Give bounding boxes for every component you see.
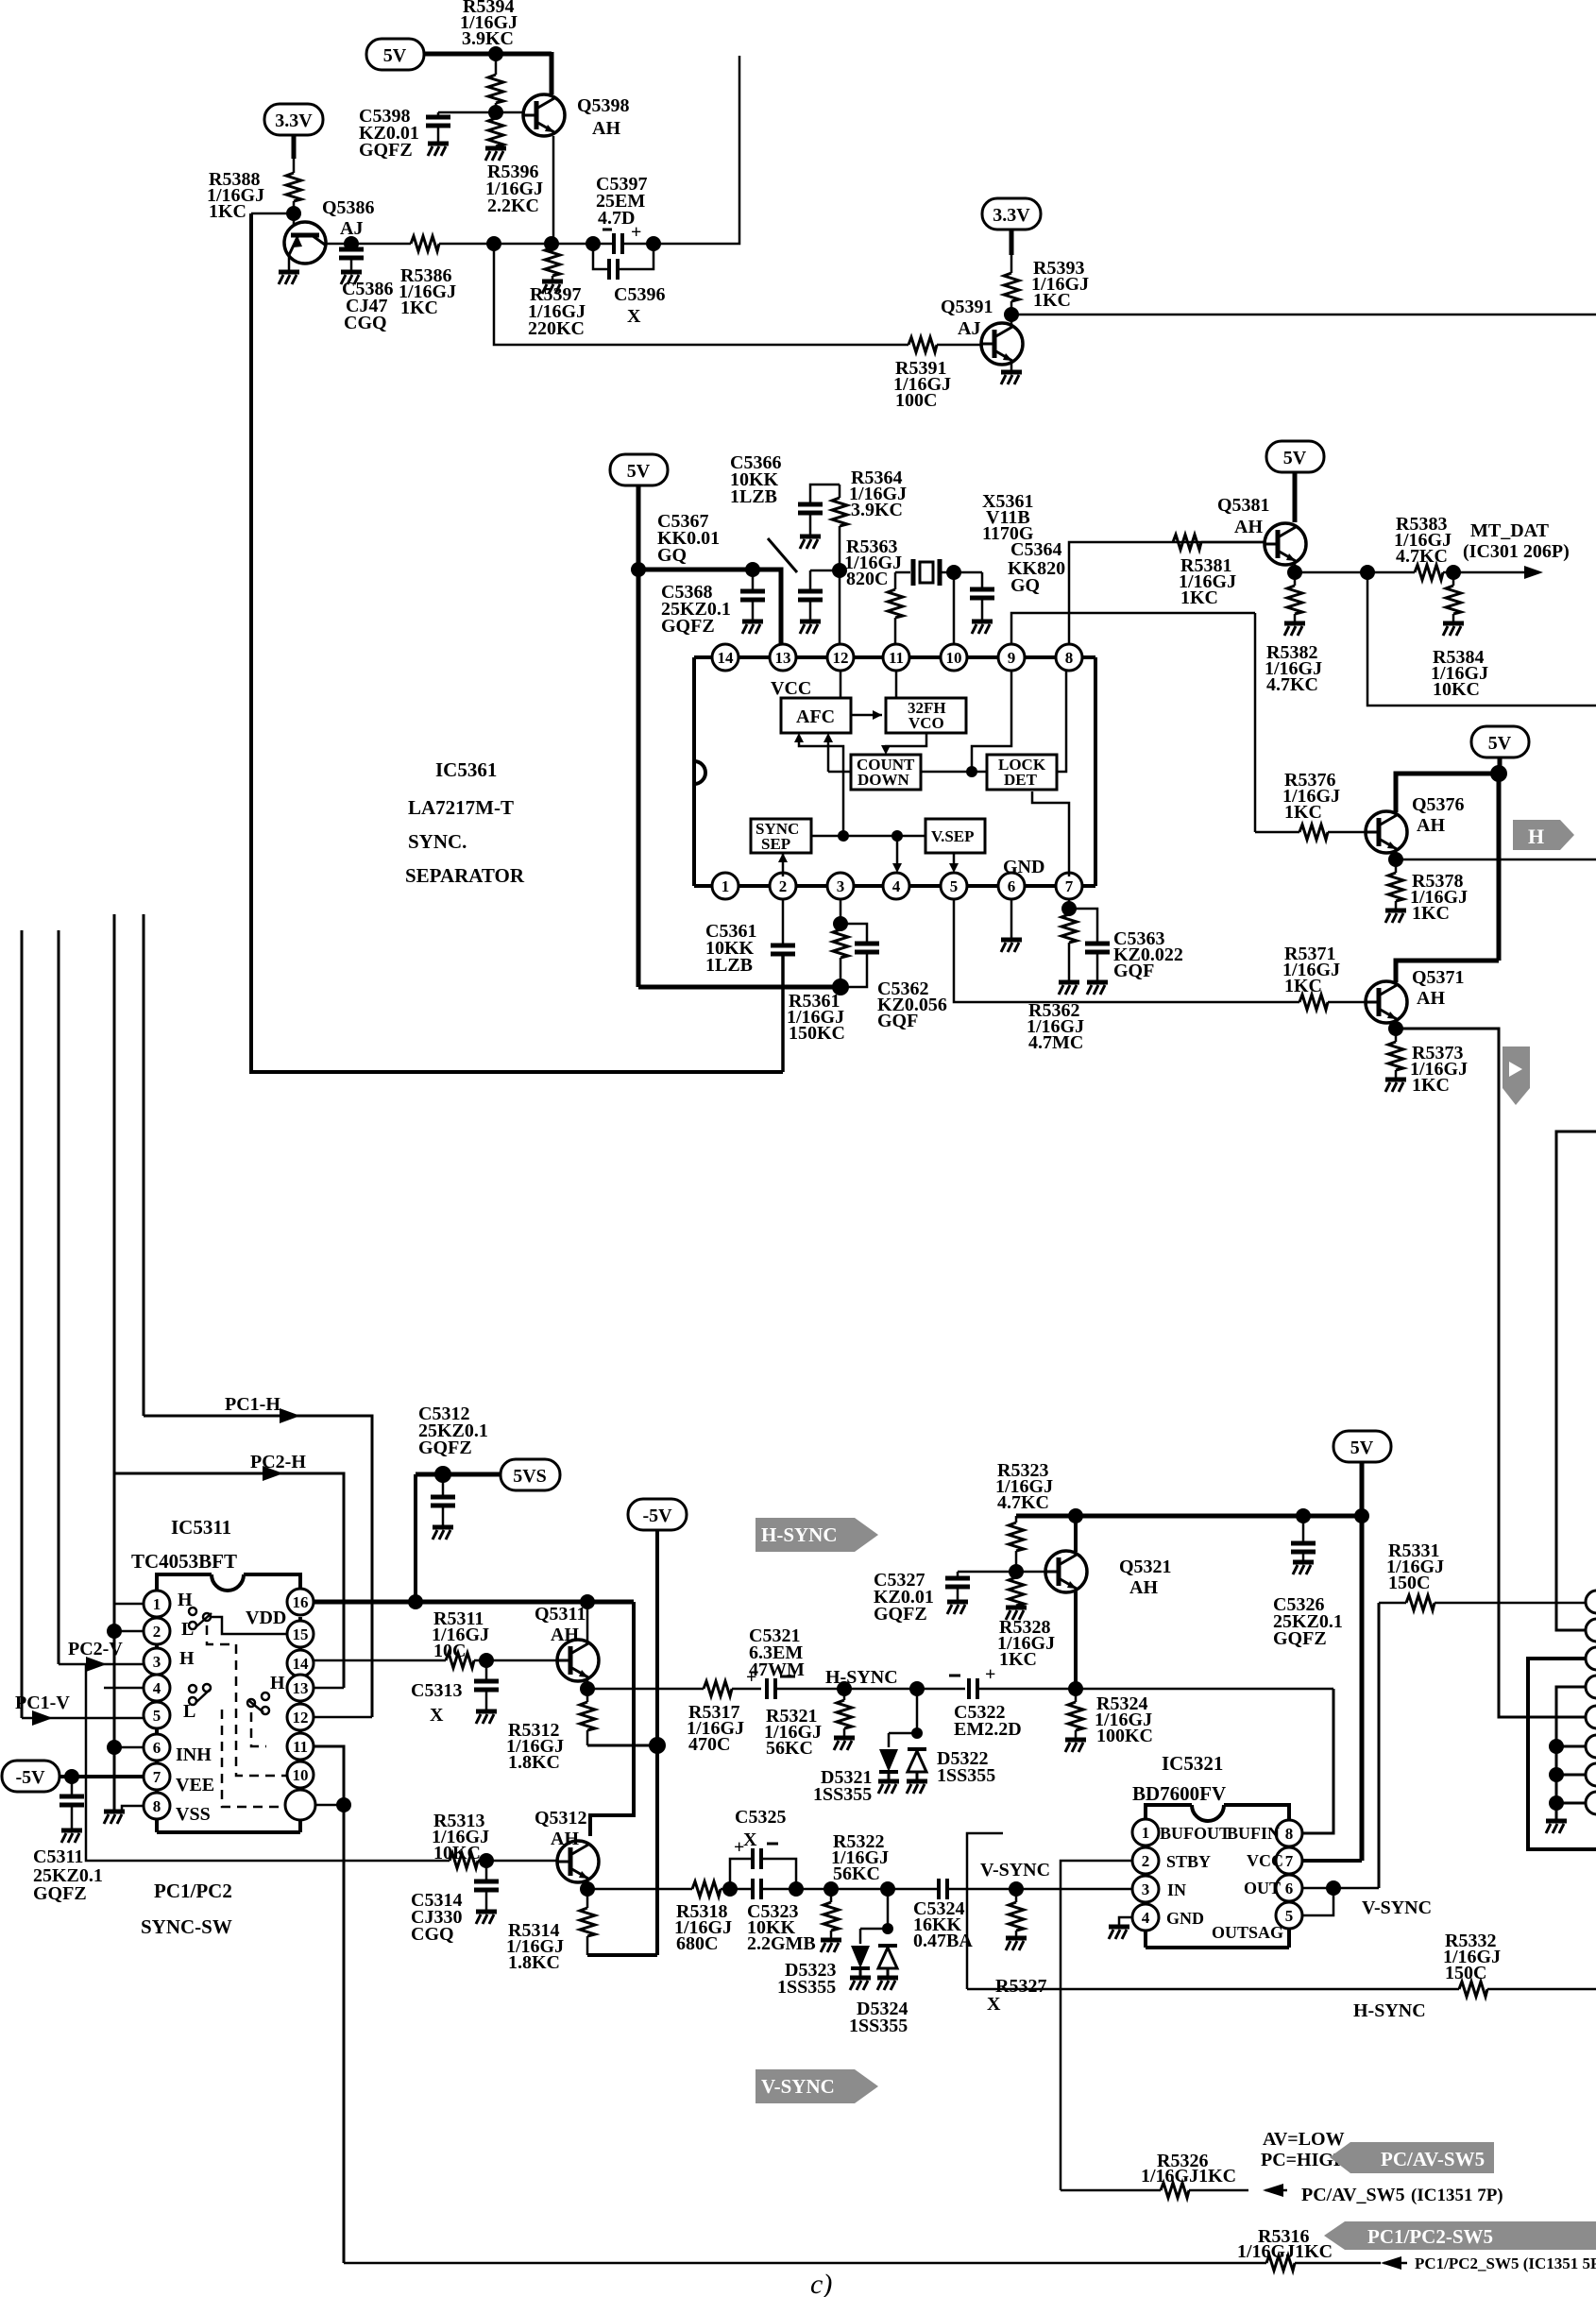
svg-text:2.2GMB: 2.2GMB xyxy=(747,1933,816,1954)
svg-text:2.2KC: 2.2KC xyxy=(487,196,539,216)
svg-text:8: 8 xyxy=(1285,1825,1294,1843)
capacitor below slash xyxy=(810,570,840,572)
wire input line 4 xyxy=(143,914,145,1416)
diode D5322 xyxy=(908,1749,926,1779)
resistor R5322 xyxy=(830,1889,833,1902)
node C5323 right xyxy=(789,1881,804,1897)
resistor R5396 xyxy=(495,112,498,118)
transistor Q5321 xyxy=(1045,1551,1087,1592)
wire 5V return bottom xyxy=(638,985,840,990)
conn pin A2 xyxy=(1586,1619,1596,1642)
pin 7 xyxy=(144,1763,170,1790)
flag PC1/PC2-SW5 xyxy=(1324,2221,1596,2250)
resistor R5323 xyxy=(1015,1516,1018,1523)
jumper C5367 slash xyxy=(768,538,797,572)
block V.SEP xyxy=(925,819,985,853)
crystal X5361 xyxy=(895,571,910,574)
resistor R5321 xyxy=(843,1689,846,1700)
svg-text:1: 1 xyxy=(722,877,730,895)
svg-text:3: 3 xyxy=(1142,1880,1150,1898)
wire PC/AV row xyxy=(1061,2189,1161,2192)
svg-text:Q5321: Q5321 xyxy=(1119,1557,1172,1577)
svg-text:PC1/PC2: PC1/PC2 xyxy=(154,1880,232,1902)
svg-text:1SS355: 1SS355 xyxy=(937,1765,995,1786)
svg-text:CGQ: CGQ xyxy=(344,313,387,333)
pin 4 xyxy=(144,1675,170,1701)
wire pin2 to C5361 xyxy=(782,899,785,945)
wire BUFIN xyxy=(1302,1689,1333,1833)
node pin3 xyxy=(840,899,842,924)
wire Q5311 collector xyxy=(586,1602,589,1641)
dashed control lines xyxy=(207,1625,286,1776)
wire VDD row xyxy=(314,1600,634,1605)
wire pin13 right xyxy=(314,1687,344,1690)
-5V supply mid xyxy=(628,1499,687,1530)
svg-text:AV=LOW: AV=LOW xyxy=(1263,2129,1345,2150)
svg-text:1SS355: 1SS355 xyxy=(849,2016,908,2036)
resistor R5371 xyxy=(1299,995,1328,1010)
svg-text:56KC: 56KC xyxy=(833,1863,880,1884)
svg-text:GND: GND xyxy=(1003,857,1044,877)
pin 4 xyxy=(883,873,909,899)
node R5327 xyxy=(1009,1881,1024,1897)
pin 7c xyxy=(1276,1847,1302,1874)
wire pin12 to AFC xyxy=(840,671,842,698)
block AFC xyxy=(781,698,851,733)
wire input line 3 xyxy=(113,914,116,1810)
diode D5321 xyxy=(888,1733,891,1747)
svg-text:X: X xyxy=(430,1705,444,1726)
svg-text:VEE: VEE xyxy=(176,1775,214,1795)
wire diode drop xyxy=(916,1689,919,1733)
svg-text:V-SYNC: V-SYNC xyxy=(980,1860,1050,1880)
svg-text:CGQ: CGQ xyxy=(411,1924,454,1945)
resistor R5373 xyxy=(1395,1029,1398,1042)
node Q5371 emitter xyxy=(1395,1019,1398,1029)
block SYNC SEP xyxy=(751,819,811,853)
node conn6 xyxy=(1549,1739,1564,1754)
wire PC2-H xyxy=(114,1473,344,1688)
svg-text:GQFZ: GQFZ xyxy=(418,1438,472,1458)
5V supply Q5321 xyxy=(1333,1431,1391,1462)
svg-text:H: H xyxy=(179,1648,195,1669)
svg-text:IC5321: IC5321 xyxy=(1162,1752,1223,1775)
svg-text:3: 3 xyxy=(837,877,845,895)
svg-text:C5364: C5364 xyxy=(1010,539,1061,560)
svg-text:4.7D: 4.7D xyxy=(598,208,635,229)
svg-text:+: + xyxy=(985,1664,995,1685)
svg-text:Q5398: Q5398 xyxy=(577,95,630,116)
svg-text:V-SYNC: V-SYNC xyxy=(1362,1897,1432,1918)
5V supply Q5376 xyxy=(1471,726,1529,757)
wire R5312 to rail xyxy=(587,1744,657,1747)
wire Q5398 emitter xyxy=(552,136,555,244)
svg-text:Q5381: Q5381 xyxy=(1217,495,1270,516)
wire H out xyxy=(1396,859,1596,861)
resistor R5382 xyxy=(1294,572,1297,586)
wire conn2 xyxy=(1556,1131,1596,1630)
svg-text:H: H xyxy=(1528,825,1544,848)
capacitor C5398 xyxy=(437,112,440,117)
svg-text:1KC: 1KC xyxy=(1284,802,1322,823)
wire Q5321 emitter xyxy=(1074,1590,1078,1689)
svg-text:AH: AH xyxy=(1234,517,1263,537)
svg-text:GQFZ: GQFZ xyxy=(33,1883,87,1904)
node 5V rail join xyxy=(1354,1508,1369,1523)
node C5314 xyxy=(479,1853,494,1868)
wire pin12 right xyxy=(314,1716,372,1719)
svg-text:3: 3 xyxy=(153,1653,161,1671)
pin 12 xyxy=(827,644,854,671)
pin 6c xyxy=(1276,1875,1302,1901)
svg-text:4: 4 xyxy=(1142,1909,1150,1927)
svg-text:LA7217M-T: LA7217M-T xyxy=(408,796,514,819)
pin 2 xyxy=(144,1618,170,1644)
svg-text:C5311: C5311 xyxy=(33,1846,83,1867)
ground Q5386 emitter xyxy=(288,253,291,270)
capacitor C5322 electrolytic xyxy=(949,1675,960,1677)
svg-text:OUTSAG: OUTSAG xyxy=(1212,1923,1283,1942)
svg-text:GQFZ: GQFZ xyxy=(874,1604,927,1625)
svg-text:1: 1 xyxy=(1142,1824,1150,1842)
capacitor C5396 loop xyxy=(593,244,609,269)
capacitor C5327 xyxy=(957,1572,959,1578)
node C5326 xyxy=(1296,1508,1311,1523)
pin 3 xyxy=(144,1648,170,1675)
wire pin7 internal xyxy=(1032,791,1069,876)
svg-text:6: 6 xyxy=(1008,877,1016,895)
svg-text:GND: GND xyxy=(1166,1909,1204,1928)
node pin12 top xyxy=(832,563,847,578)
wire COUNT-LOCK xyxy=(921,771,987,774)
svg-text:AH: AH xyxy=(1417,988,1445,1009)
node R5321 xyxy=(837,1681,852,1696)
wire Q5371 collector xyxy=(1396,961,1499,982)
pin 8 xyxy=(144,1793,170,1819)
wire 5V rail IC5321 xyxy=(1360,1462,1365,1861)
resistor R5394 xyxy=(495,54,498,75)
svg-text:AH: AH xyxy=(1129,1577,1158,1598)
pin 14b xyxy=(287,1650,314,1676)
wire to AFC arrows xyxy=(799,737,843,836)
svg-text:c): c) xyxy=(810,2269,832,2297)
block COUNT DOWN xyxy=(851,755,921,790)
node 5V rail xyxy=(1490,765,1507,782)
svg-text:SYNC.: SYNC. xyxy=(408,830,467,853)
resistor R5393 xyxy=(1010,230,1014,255)
svg-text:3.3V: 3.3V xyxy=(275,111,313,131)
wire A out xyxy=(1396,1029,1586,1717)
node Q5391 collector xyxy=(1004,307,1019,322)
wire Q5321 collector xyxy=(1074,1516,1078,1552)
capacitor C5311 xyxy=(71,1777,74,1796)
wire 5V to Q5381 xyxy=(1293,472,1298,522)
transistor Q5311 xyxy=(557,1640,599,1681)
wire video loop left xyxy=(251,213,783,1072)
IC5321 body xyxy=(1146,1805,1289,1948)
svg-text:Q5312: Q5312 xyxy=(535,1808,587,1829)
wire pin1 left xyxy=(114,1603,144,1606)
svg-text:SEP: SEP xyxy=(761,835,790,853)
conn pin A1 xyxy=(1586,1591,1596,1613)
capacitor C5361 xyxy=(771,945,795,954)
svg-text:680C: 680C xyxy=(676,1933,718,1954)
wire pin11 to VCO xyxy=(895,671,898,698)
wire sw1 common to pin15 xyxy=(211,1617,287,1634)
svg-text:BUFIN: BUFIN xyxy=(1227,1824,1280,1843)
node sync a xyxy=(838,830,849,842)
wire pin11 right xyxy=(314,1746,344,2263)
transistor Q5386 xyxy=(284,222,326,264)
pin 6 xyxy=(998,873,1025,899)
svg-text:VSS: VSS xyxy=(176,1804,211,1825)
wire VCC pin xyxy=(1302,1859,1362,1863)
svg-text:1.8KC: 1.8KC xyxy=(508,1952,560,1973)
svg-text:Q5371: Q5371 xyxy=(1412,967,1465,988)
node C5312 drop xyxy=(408,1594,423,1609)
node C5368 xyxy=(745,562,760,577)
svg-text:X: X xyxy=(987,1994,1001,2015)
resistor R5331 xyxy=(1379,1602,1406,1605)
pin 13b xyxy=(287,1675,314,1701)
svg-text:1KC: 1KC xyxy=(1412,903,1450,924)
pin 9 xyxy=(998,644,1025,671)
ground conn xyxy=(1546,1821,1567,1833)
capacitor C5323 xyxy=(751,1879,755,1899)
svg-text:8: 8 xyxy=(153,1797,161,1815)
wire -5V to VEE xyxy=(59,1775,144,1778)
conn pin A4 xyxy=(1586,1676,1596,1698)
svg-text:AFC: AFC xyxy=(796,706,835,727)
3.3V supply left xyxy=(264,104,323,135)
wire pin9 drop xyxy=(1254,613,1257,832)
svg-text:7: 7 xyxy=(1285,1852,1294,1870)
3.3V supply right xyxy=(982,198,1041,230)
svg-text:C5325: C5325 xyxy=(735,1807,786,1828)
node C5313 xyxy=(479,1653,494,1668)
transistor Q5371 xyxy=(1366,981,1407,1023)
wire emitter row xyxy=(1295,571,1415,574)
svg-text:1LZB: 1LZB xyxy=(705,955,753,976)
svg-text:AJ: AJ xyxy=(340,218,363,239)
wire long output y333 xyxy=(1011,314,1596,316)
wire collector stub xyxy=(1010,315,1013,327)
svg-text:5: 5 xyxy=(153,1707,161,1725)
svg-text:H-SYNC: H-SYNC xyxy=(761,1523,838,1546)
pin 10b xyxy=(287,1761,314,1788)
svg-text:16: 16 xyxy=(293,1593,309,1611)
pin 4c xyxy=(1132,1904,1159,1931)
svg-text:220KC: 220KC xyxy=(528,318,585,339)
5V supply top xyxy=(366,39,424,70)
svg-text:1SS355: 1SS355 xyxy=(813,1784,872,1805)
wire OUT xyxy=(1302,1887,1379,1890)
svg-text:14: 14 xyxy=(718,649,735,667)
svg-text:AH: AH xyxy=(1417,815,1445,836)
wire V-SYNC row xyxy=(587,1888,692,1891)
svg-text:4.7KC: 4.7KC xyxy=(997,1492,1049,1513)
capacitor C5324 xyxy=(937,1879,941,1899)
node C5386 xyxy=(344,236,359,251)
pin 11b xyxy=(287,1733,314,1760)
wire Q5321 supply row xyxy=(1016,1514,1362,1519)
svg-text:5: 5 xyxy=(950,877,959,895)
wire MT_DAT arrow xyxy=(1453,571,1528,574)
conn pin A6 xyxy=(1586,1735,1596,1758)
IC5311 body xyxy=(157,1574,300,1832)
capacitor C5326 xyxy=(1302,1516,1305,1543)
svg-text:BD7600FV: BD7600FV xyxy=(1132,1782,1226,1805)
pin 8 xyxy=(1056,644,1082,671)
svg-text:VCC: VCC xyxy=(771,678,811,699)
svg-text:6: 6 xyxy=(1285,1880,1294,1897)
resistor R5384 xyxy=(1452,572,1455,586)
node Q5398 emitter join xyxy=(544,236,559,251)
wire OUTSAG to OUT xyxy=(1302,1888,1333,1915)
svg-text:5VS: 5VS xyxy=(513,1466,547,1487)
svg-text:1KC: 1KC xyxy=(1412,1075,1450,1096)
wire Q5398 base xyxy=(438,111,524,114)
resistor R5324 xyxy=(1075,1689,1078,1702)
svg-text:12: 12 xyxy=(833,649,849,667)
svg-text:10C: 10C xyxy=(433,1641,466,1661)
svg-text:BUFOUT: BUFOUT xyxy=(1160,1824,1231,1843)
svg-text:GQF: GQF xyxy=(1113,961,1154,981)
node Q5312 emitter xyxy=(586,1879,589,1889)
svg-text:Q5386: Q5386 xyxy=(322,197,375,218)
svg-text:AJ: AJ xyxy=(958,318,980,339)
resistor R5383 xyxy=(1415,565,1443,580)
svg-text:820C: 820C xyxy=(846,569,888,589)
pin 13 xyxy=(770,644,796,671)
wire pin12 xyxy=(839,570,841,646)
resistor R5317 xyxy=(704,1681,732,1696)
wire branch to right edge xyxy=(1367,572,1596,706)
svg-text:5V: 5V xyxy=(383,45,407,66)
resistor R5391 xyxy=(908,337,937,352)
pin 2c xyxy=(1132,1847,1159,1874)
wire VSEP pin5 arrow xyxy=(953,853,956,869)
wire GND pin4 xyxy=(1119,1917,1132,1925)
wire base row xyxy=(958,1571,1045,1574)
transistor Q5391 xyxy=(981,323,1023,365)
capacitor C5386 xyxy=(350,244,353,249)
conn pin A5 xyxy=(1586,1706,1596,1728)
svg-text:VDD: VDD xyxy=(246,1608,286,1628)
svg-text:1/16GJ1KC: 1/16GJ1KC xyxy=(1141,2166,1236,2186)
svg-text:PC/AV-SW5: PC/AV-SW5 xyxy=(1381,2148,1485,2170)
wire R5314 to rail xyxy=(587,1953,657,1957)
svg-text:150KC: 150KC xyxy=(789,1023,845,1044)
svg-text:7: 7 xyxy=(1065,877,1074,895)
pin 10 xyxy=(941,644,967,671)
node pin6 INH xyxy=(107,1740,122,1755)
resistor R5364 xyxy=(839,485,841,498)
svg-text:3.9KC: 3.9KC xyxy=(851,500,903,520)
wire STBY xyxy=(1061,1861,1132,2190)
svg-text:2: 2 xyxy=(153,1623,161,1641)
wire 5V rail top xyxy=(424,52,552,57)
transistor Q5376 xyxy=(1366,811,1407,853)
pin 6 xyxy=(144,1734,170,1761)
svg-text:100KC: 100KC xyxy=(1096,1726,1153,1746)
svg-text:AH: AH xyxy=(551,1625,579,1645)
diode D5323 xyxy=(859,1929,862,1944)
svg-text:IC5361: IC5361 xyxy=(435,758,497,781)
pin 3c xyxy=(1132,1876,1159,1902)
svg-text:SYNC-SW: SYNC-SW xyxy=(141,1915,232,1938)
svg-text:5V: 5V xyxy=(1488,733,1512,754)
block 32FH VCO xyxy=(886,698,966,733)
wire R5391 feed xyxy=(494,244,908,345)
wire PC1-V arrow xyxy=(22,1717,144,1720)
wire conn3 xyxy=(1528,1659,1596,1849)
svg-text:4: 4 xyxy=(153,1679,161,1697)
svg-text:(IC301 206P): (IC301 206P) xyxy=(1463,541,1570,562)
wire LOCK to pin8 xyxy=(1057,671,1066,772)
svg-text:3.3V: 3.3V xyxy=(993,205,1030,226)
node pin2 xyxy=(107,1624,122,1639)
node Q5311 emitter xyxy=(586,1677,589,1689)
svg-text:GQFZ: GQFZ xyxy=(359,140,413,161)
svg-text:13: 13 xyxy=(293,1679,309,1697)
wire pin9 internal xyxy=(972,671,1011,772)
resistor R5376 xyxy=(1255,831,1299,834)
node R5391 branch xyxy=(486,236,501,251)
wire to left rail xyxy=(251,213,294,215)
svg-text:PC1-V: PC1-V xyxy=(15,1693,70,1713)
switch sw3 xyxy=(262,1693,269,1700)
wire pin10 xyxy=(953,572,956,646)
node Q5311 collector xyxy=(580,1594,595,1609)
svg-text:(IC1351 7P): (IC1351 7P) xyxy=(1411,2186,1503,2205)
resistor R5326 xyxy=(1161,2183,1189,2198)
svg-text:5V: 5V xyxy=(1350,1438,1374,1458)
5V supply IC5361 xyxy=(610,454,668,485)
diode D5324 xyxy=(878,1946,897,1976)
flag H xyxy=(1513,820,1574,850)
wire Q5312 collector feed xyxy=(590,1602,634,1836)
svg-text:1KC: 1KC xyxy=(400,298,438,318)
wire Q5376 collector xyxy=(1396,774,1499,812)
pin 1c xyxy=(1132,1819,1159,1846)
IC5361 body xyxy=(694,657,1095,886)
block LOCK DET xyxy=(987,755,1057,790)
conn pin A3 xyxy=(1586,1647,1596,1670)
svg-text:VCO: VCO xyxy=(908,714,944,732)
svg-text:PC1/PC2-SW5: PC1/PC2-SW5 xyxy=(1367,2225,1493,2248)
svg-text:1.8KC: 1.8KC xyxy=(508,1752,560,1773)
svg-text:V-SYNC: V-SYNC xyxy=(761,2075,835,2098)
node pin9 internal xyxy=(966,766,977,777)
svg-text:47WM: 47WM xyxy=(749,1659,805,1680)
pin 1 xyxy=(144,1591,170,1617)
wire base stub xyxy=(293,213,296,233)
resistor R5314 xyxy=(586,1889,589,1908)
node R5388/Q5386 base xyxy=(286,206,301,221)
svg-text:X: X xyxy=(627,306,641,327)
svg-text:7: 7 xyxy=(153,1768,161,1786)
svg-text:10: 10 xyxy=(293,1766,309,1784)
svg-text:4.7MC: 4.7MC xyxy=(1028,1032,1083,1053)
capacitor C5325 electrolytic xyxy=(730,1859,753,1889)
wire PC1-H xyxy=(144,1416,372,1717)
svg-text:2: 2 xyxy=(1142,1852,1150,1870)
svg-text:10KC: 10KC xyxy=(433,1843,481,1863)
resistor R5361 xyxy=(840,924,842,929)
wire row to C5322 xyxy=(844,1688,965,1691)
svg-text:C5313: C5313 xyxy=(411,1680,462,1701)
